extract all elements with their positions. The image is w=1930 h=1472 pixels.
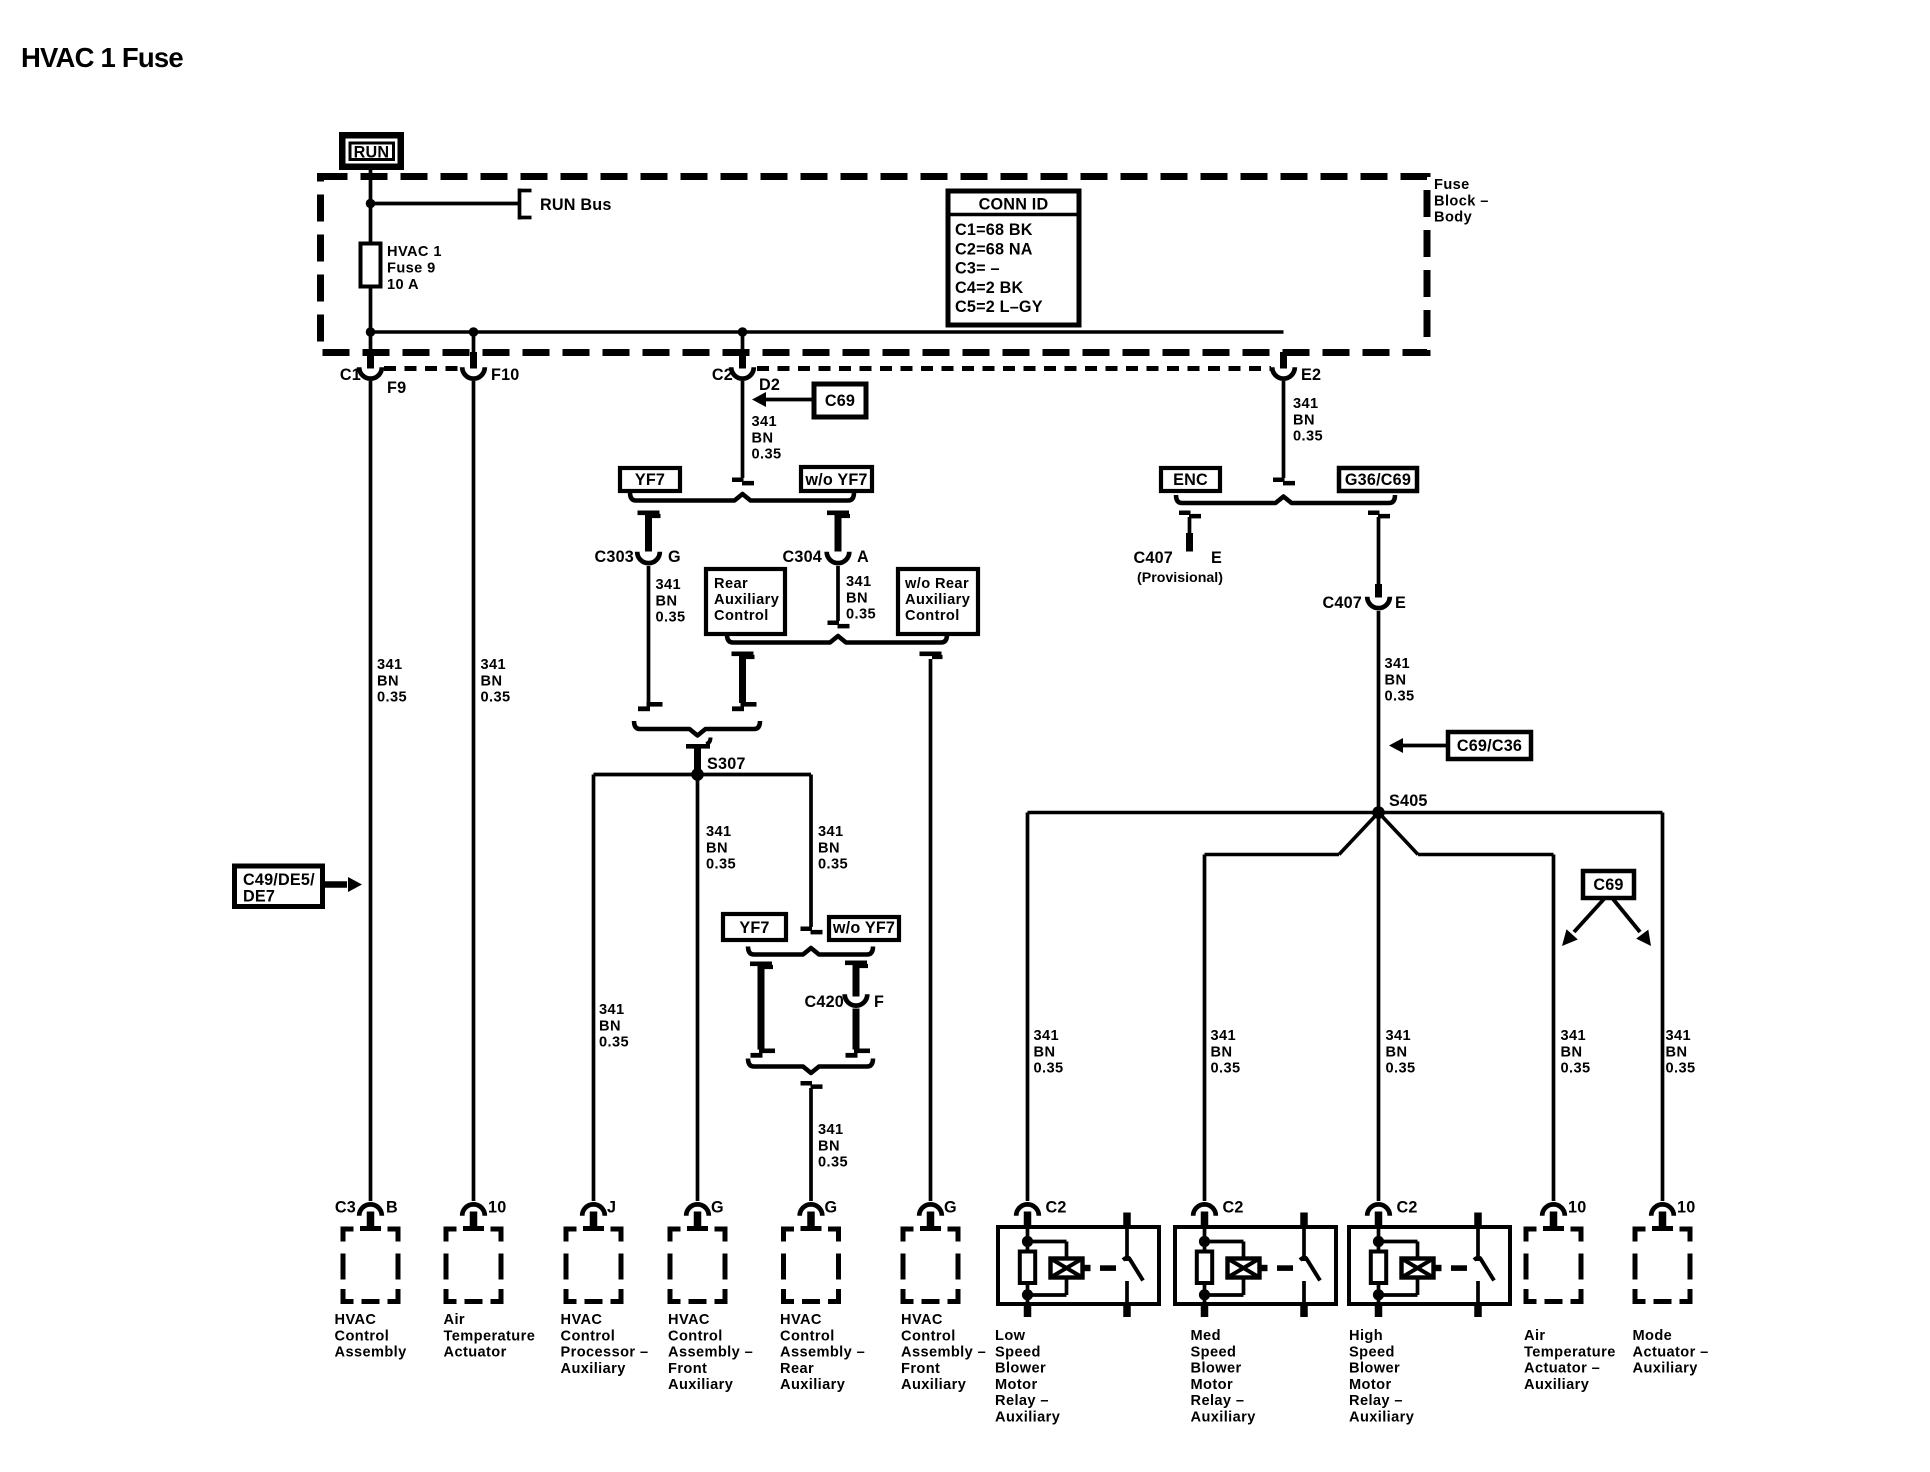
svg-text:BN: BN: [1666, 1044, 1688, 1060]
option label ENC box: [1161, 468, 1220, 491]
label pin 10 (air temp actuator): [488, 1199, 506, 1217]
fuse HVAC 1 Fuse 9 10A: [361, 244, 381, 287]
label 341 BN 0.35 (below E2): [1293, 396, 1323, 445]
svg-text:F: F: [874, 993, 884, 1011]
svg-text:341: 341: [1211, 1028, 1237, 1044]
wire 341 BN to low speed relay: [1026, 813, 1030, 1202]
label pin G at C303: [668, 548, 681, 566]
label Air Temperature Actuator: [444, 1312, 536, 1361]
connector C407 socket: [1367, 597, 1390, 608]
component box HVAC Control Processor - Auxiliary: [564, 1227, 624, 1305]
option label w/o Rear Auxiliary Control box: [898, 569, 978, 634]
svg-text:Auxiliary: Auxiliary: [714, 592, 780, 608]
connector C2 pin D2: [731, 332, 754, 379]
splice S405: [1372, 806, 1385, 819]
svg-text:BN: BN: [752, 430, 774, 446]
option split brace ENC / G36-C69: [1176, 495, 1395, 503]
component box HVAC Control Assembly - Front Auxiliary 2: [901, 1227, 961, 1305]
label 341 BN 0.35 (processor branch): [599, 1002, 629, 1051]
svg-text:HVAC 1 Fuse: HVAC 1 Fuse: [21, 42, 183, 73]
svg-text:DE7: DE7: [243, 888, 275, 906]
svg-text:(Provisional): (Provisional): [1137, 570, 1223, 586]
svg-text:0.35: 0.35: [818, 1155, 848, 1171]
connector C304 socket: [827, 552, 850, 563]
svg-text:Motor: Motor: [1349, 1377, 1392, 1393]
label C2: [712, 366, 733, 384]
svg-text:BN: BN: [1034, 1044, 1056, 1060]
svg-text:YF7: YF7: [739, 919, 769, 937]
svg-text:C407: C407: [1323, 594, 1363, 612]
svg-text:0.35: 0.35: [1561, 1061, 1591, 1077]
svg-text:S405: S405: [1389, 792, 1428, 810]
wire shelf to med relay: [1205, 853, 1340, 857]
component box HVAC Control Assembly - Front Auxiliary: [668, 1227, 728, 1305]
label C303: [595, 548, 635, 566]
svg-text:341: 341: [1385, 656, 1411, 672]
connector C420 socket: [845, 994, 868, 1005]
wire 341 BN below C303: [647, 566, 651, 703]
svg-text:10: 10: [1677, 1199, 1695, 1217]
label Med Speed Blower Motor Relay - Auxiliary: [1191, 1328, 1257, 1426]
svg-text:341: 341: [377, 657, 403, 673]
option label w/o YF7 box: [801, 467, 872, 491]
connector pin 10 into air temperature actuator: [462, 1204, 485, 1231]
label RUN Bus: [540, 196, 612, 214]
svg-text:Control: Control: [905, 608, 960, 624]
label C407: [1323, 594, 1363, 612]
label 341 BN 0.35 (C407 to S405): [1385, 656, 1415, 705]
label pin G (rear aux): [825, 1199, 838, 1217]
svg-text:0.35: 0.35: [706, 857, 736, 873]
connector C3 pin B into HVAC control assembly: [359, 1204, 382, 1231]
svg-text:Auxiliary: Auxiliary: [561, 1361, 627, 1377]
svg-text:E: E: [1395, 594, 1406, 612]
svg-text:10: 10: [1568, 1199, 1586, 1217]
callout C69 box at D2: [814, 384, 866, 417]
svg-text:Relay –: Relay –: [1191, 1393, 1245, 1409]
label E2: [1301, 366, 1321, 384]
svg-text:341: 341: [481, 657, 507, 673]
svg-text:Fuse 9: Fuse 9: [387, 260, 436, 276]
wire 341 BN C1 to HVAC control assembly: [369, 381, 373, 1201]
svg-text:HVAC: HVAC: [561, 1312, 603, 1328]
svg-text:Temperature: Temperature: [1524, 1344, 1616, 1360]
svg-text:Front: Front: [901, 1361, 940, 1377]
merge brace into S307: [634, 721, 760, 736]
label C2 (med speed relay): [1223, 1199, 1244, 1217]
svg-text:Blower: Blower: [995, 1361, 1046, 1377]
svg-text:YF7: YF7: [635, 471, 665, 489]
label F10: [491, 366, 520, 384]
wire S307 distribution: [594, 773, 812, 777]
svg-text:Control: Control: [561, 1328, 616, 1344]
wire end squiggle above ENC split: [1273, 478, 1295, 486]
svg-text:C69: C69: [1593, 876, 1623, 894]
svg-text:341: 341: [1293, 396, 1319, 412]
svg-text:Rear: Rear: [780, 1361, 814, 1377]
label 341 BN 0.35 (F10 branch): [481, 657, 511, 706]
connector C303 socket: [637, 552, 660, 563]
merge brace below C420: [748, 1059, 873, 1074]
label pin E (provisional): [1211, 549, 1222, 567]
rear-aux branch jumper pin: [739, 655, 746, 703]
svg-text:Auxiliary: Auxiliary: [780, 1377, 846, 1393]
terminal bar under merge brace: [686, 738, 711, 775]
label pin B: [386, 1199, 398, 1217]
svg-text:C2: C2: [1046, 1199, 1067, 1217]
svg-text:Assembly: Assembly: [335, 1345, 408, 1361]
svg-text:BN: BN: [1561, 1044, 1583, 1060]
label 341 BN 0.35 (below C2): [752, 414, 782, 463]
connector pin G into rear auxiliary assembly: [800, 1204, 823, 1231]
svg-text:0.35: 0.35: [599, 1035, 629, 1051]
label S405: [1389, 792, 1428, 810]
label C407 (provisional): [1134, 549, 1174, 567]
option label YF7 box: [620, 468, 680, 491]
wire S405 diagonal right: [1379, 813, 1419, 855]
connector F10: [462, 332, 485, 379]
svg-text:HVAC: HVAC: [335, 1312, 377, 1328]
wire end squiggle above rear-aux split: [828, 621, 850, 629]
option split brace YF7 lower: [748, 947, 873, 955]
svg-text:C1: C1: [340, 366, 361, 384]
svg-text:0.35: 0.35: [752, 447, 782, 463]
svg-text:Speed: Speed: [995, 1344, 1041, 1360]
svg-text:Relay –: Relay –: [995, 1393, 1049, 1409]
connector C1 pin F9: [359, 332, 382, 379]
svg-text:Auxiliary: Auxiliary: [1524, 1377, 1590, 1393]
pin below C420: [853, 1009, 860, 1050]
svg-text:BN: BN: [599, 1018, 621, 1034]
label C1: [340, 366, 361, 384]
svg-text:HVAC: HVAC: [780, 1312, 822, 1328]
svg-text:S307: S307: [707, 755, 746, 773]
w/o YF7 branch terminal bar: [827, 511, 850, 519]
label pin 10 (air temp aux): [1568, 1199, 1586, 1217]
relay Med Speed Blower Motor Relay - Auxiliary: [1175, 1212, 1336, 1318]
fuse block - body dashed outline: [321, 177, 1428, 353]
connector E2: [1272, 352, 1295, 379]
YF7 lower branch terminal bar: [750, 962, 773, 970]
svg-text:Motor: Motor: [995, 1377, 1038, 1393]
svg-text:Assembly –: Assembly –: [901, 1345, 986, 1361]
svg-text:Speed: Speed: [1191, 1344, 1237, 1360]
svg-text:10 A: 10 A: [387, 277, 419, 293]
G36/C69 branch wire: [1377, 517, 1381, 585]
svg-text:Fuse: Fuse: [1434, 177, 1470, 193]
ENC branch squiggle: [1179, 511, 1201, 519]
wire RUN Bus tap with bracket: [371, 189, 532, 220]
svg-text:BN: BN: [1386, 1044, 1408, 1060]
label (Provisional): [1137, 570, 1223, 586]
wire 341 BN to mode actuator auxiliary: [1661, 813, 1665, 1202]
svg-text:BN: BN: [481, 673, 503, 689]
label F9: [387, 379, 406, 397]
wire 341 BN S307 to HVAC control processor: [592, 775, 596, 1202]
wire 341 BN S307 to front auxiliary assembly: [696, 775, 700, 1202]
callout C49/DE5/DE7 box: [235, 866, 323, 907]
svg-text:341: 341: [1561, 1028, 1587, 1044]
connector pin G into front auxiliary assembly 2: [919, 1204, 942, 1231]
svg-text:C3= –: C3= –: [955, 260, 1000, 278]
label HVAC Control Assembly: [335, 1312, 408, 1361]
svg-text:Auxiliary: Auxiliary: [1191, 1410, 1257, 1426]
label C2 (high speed relay): [1397, 1199, 1418, 1217]
svg-text:341: 341: [1666, 1028, 1692, 1044]
wire S405 distribution bar: [1028, 811, 1663, 815]
arrow C69 to mode wire: [1613, 899, 1651, 946]
label pin A at C304: [857, 548, 869, 566]
svg-text:G: G: [944, 1199, 957, 1217]
svg-text:G: G: [711, 1199, 724, 1217]
svg-text:0.35: 0.35: [1034, 1061, 1064, 1077]
svg-text:E: E: [1211, 549, 1222, 567]
svg-text:BN: BN: [706, 840, 728, 856]
svg-text:Med: Med: [1191, 1328, 1221, 1344]
svg-text:w/o YF7: w/o YF7: [804, 471, 867, 489]
svg-text:C69: C69: [825, 392, 855, 410]
svg-text:0.35: 0.35: [1666, 1061, 1696, 1077]
svg-text:Mode: Mode: [1633, 1328, 1673, 1344]
svg-text:C2=68 NA: C2=68 NA: [955, 240, 1033, 258]
label HVAC Control Processor - Auxiliary: [561, 1312, 649, 1377]
dotted connector face C2 to E2: [757, 366, 1271, 371]
component box HVAC Control Assembly - Rear Auxiliary: [781, 1227, 841, 1305]
svg-text:G: G: [668, 548, 681, 566]
w/o YF7 lower bottom terminal bar: [846, 1049, 871, 1058]
callout C69/C36 box: [1448, 732, 1531, 759]
svg-text:J: J: [607, 1199, 616, 1217]
junction bus at F10: [469, 327, 479, 337]
label HVAC Control Assembly - Front Auxiliary: [668, 1312, 753, 1393]
label 341 BN 0.35 (C304 branch): [846, 574, 876, 623]
w/o rear-aux branch terminal bar: [920, 652, 943, 660]
svg-text:0.35: 0.35: [1211, 1061, 1241, 1077]
w/o YF7 lower branch terminal bar: [845, 961, 868, 969]
label pin G (front aux 2): [944, 1199, 957, 1217]
label 341 BN 0.35 (mode actuator): [1666, 1028, 1696, 1077]
squiggle below merge brace: [801, 1081, 823, 1089]
svg-text:G: G: [825, 1199, 838, 1217]
svg-text:C49/DE5/: C49/DE5/: [243, 871, 315, 889]
svg-text:BN: BN: [1293, 412, 1315, 428]
label C3: [335, 1199, 356, 1217]
svg-text:Block –: Block –: [1434, 193, 1489, 209]
label 341 BN 0.35 (high speed): [1386, 1028, 1416, 1077]
svg-text:BN: BN: [1211, 1044, 1233, 1060]
svg-text:Control: Control: [335, 1328, 390, 1344]
svg-text:HVAC 1: HVAC 1: [387, 244, 442, 260]
label S307: [707, 755, 746, 773]
option label Rear Auxiliary Control box: [706, 569, 785, 634]
svg-text:BN: BN: [846, 590, 868, 606]
svg-text:F9: F9: [387, 379, 406, 397]
label Mode Actuator - Auxiliary: [1633, 1328, 1709, 1377]
relay Low Speed Blower Motor Relay - Auxiliary: [998, 1212, 1159, 1318]
label pin E at C407: [1395, 594, 1406, 612]
option split brace YF7 / w-o YF7: [630, 493, 854, 501]
svg-text:Processor –: Processor –: [561, 1345, 649, 1361]
svg-text:BN: BN: [377, 673, 399, 689]
svg-text:Control: Control: [714, 608, 769, 624]
wire 341 BN below E2: [1282, 381, 1286, 478]
svg-text:w/o Rear: w/o Rear: [904, 576, 969, 592]
svg-text:Speed: Speed: [1349, 1344, 1395, 1360]
wire fused output bus: [371, 330, 1284, 334]
label High Speed Blower Motor Relay - Auxiliary: [1349, 1328, 1415, 1426]
svg-text:D2: D2: [759, 376, 780, 394]
label 341 BN 0.35 (to rear aux assembly): [818, 1122, 848, 1171]
option split brace rear auxiliary control: [727, 635, 947, 643]
pin into C407: [1375, 584, 1382, 598]
svg-text:C2: C2: [1397, 1199, 1418, 1217]
svg-text:Blower: Blower: [1191, 1361, 1242, 1377]
svg-text:Auxiliary: Auxiliary: [1349, 1410, 1415, 1426]
label 341 BN 0.35 (C303 branch): [656, 577, 686, 626]
ENC branch wire: [1188, 517, 1192, 535]
label HVAC Control Assembly - Front Auxiliary 2: [901, 1312, 986, 1393]
node RUN (ignition voltage): [339, 132, 404, 170]
svg-text:Actuator –: Actuator –: [1633, 1344, 1709, 1360]
svg-text:341: 341: [599, 1002, 625, 1018]
label 341 BN 0.35 (front aux branch): [706, 824, 736, 873]
label C304: [783, 548, 823, 566]
svg-text:341: 341: [1386, 1028, 1412, 1044]
svg-text:E2: E2: [1301, 366, 1321, 384]
svg-text:Assembly –: Assembly –: [780, 1345, 865, 1361]
w/o YF7 branch pin into C420: [853, 964, 860, 997]
junction RUN Bus tap: [366, 199, 376, 209]
svg-text:BN: BN: [818, 840, 840, 856]
svg-text:C3: C3: [335, 1199, 356, 1217]
svg-text:Control: Control: [901, 1328, 956, 1344]
svg-text:0.35: 0.35: [656, 610, 686, 626]
wire w/o rear-aux to front auxiliary assembly: [929, 659, 933, 1201]
connector C2 into low speed relay: [1016, 1204, 1039, 1215]
svg-text:341: 341: [1034, 1028, 1060, 1044]
wire 341 BN below C304: [836, 566, 840, 621]
svg-text:BN: BN: [656, 593, 678, 609]
svg-text:B: B: [386, 1199, 398, 1217]
w/o YF7 branch pin into C304: [835, 514, 842, 552]
svg-text:10: 10: [488, 1199, 506, 1217]
label pin F at C420: [874, 993, 884, 1011]
YF7 branch pin into C303: [645, 514, 652, 552]
connector C2 into med speed relay: [1193, 1204, 1216, 1215]
svg-text:C2: C2: [1223, 1199, 1244, 1217]
component box Air Temperature Actuator - Auxiliary: [1524, 1227, 1584, 1305]
label 341 BN 0.35 (air temp aux): [1561, 1028, 1591, 1077]
svg-text:RUN Bus: RUN Bus: [540, 196, 612, 214]
svg-text:Front: Front: [668, 1361, 707, 1377]
svg-text:G36/C69: G36/C69: [1345, 471, 1411, 489]
wire end squiggle above second YF7 split: [801, 927, 823, 935]
label C2 (low speed relay): [1046, 1199, 1067, 1217]
callout C69 box (lower): [1583, 871, 1634, 898]
junction bus at C2: [738, 327, 748, 337]
svg-text:0.35: 0.35: [846, 607, 876, 623]
arrow C69/C36 to wire: [1389, 738, 1448, 753]
label D2: [759, 376, 780, 394]
svg-text:Motor: Motor: [1191, 1377, 1234, 1393]
CONN ID table: [948, 191, 1079, 325]
svg-text:Auxiliary: Auxiliary: [905, 592, 971, 608]
svg-text:0.35: 0.35: [377, 690, 407, 706]
wire RUN to fuse: [369, 170, 373, 244]
svg-text:RUN: RUN: [354, 144, 390, 162]
connector pin J into HVAC control processor: [582, 1204, 605, 1231]
YF7 lower branch jumper pin: [758, 965, 765, 1050]
wire 341 BN below C2: [741, 381, 745, 478]
dotted connector face C1 to F10: [384, 366, 461, 371]
svg-text:HVAC: HVAC: [901, 1312, 943, 1328]
svg-text:Auxiliary: Auxiliary: [668, 1377, 734, 1393]
svg-text:C303: C303: [595, 548, 635, 566]
wire 341 BN to high speed relay: [1377, 813, 1381, 1202]
svg-text:Air: Air: [1524, 1328, 1545, 1344]
svg-text:Auxiliary: Auxiliary: [901, 1377, 967, 1393]
connector pin 10 into mode actuator auxiliary: [1651, 1204, 1674, 1231]
rear-aux branch terminal bar: [732, 652, 755, 660]
svg-text:Assembly –: Assembly –: [668, 1345, 753, 1361]
ENC branch provisional pin C407 E: [1186, 533, 1193, 552]
svg-text:Actuator –: Actuator –: [1524, 1361, 1600, 1377]
wire end squiggle above YF7 split: [732, 478, 754, 486]
component box HVAC Control Assembly: [341, 1227, 401, 1305]
arrow C69 to air temp wire: [1562, 899, 1604, 946]
svg-text:w/o YF7: w/o YF7: [832, 919, 895, 937]
svg-text:C1=68 BK: C1=68 BK: [955, 221, 1033, 239]
wire 341 BN S307 to YF7 split: [809, 775, 813, 928]
svg-text:0.35: 0.35: [1386, 1061, 1416, 1077]
YF7 lower branch bottom terminal bar: [751, 1049, 776, 1058]
svg-text:C420: C420: [805, 993, 845, 1011]
svg-text:0.35: 0.35: [1385, 689, 1415, 705]
svg-text:Control: Control: [780, 1328, 835, 1344]
svg-text:0.35: 0.35: [481, 690, 511, 706]
wire 341 BN C420 to rear auxiliary assembly: [809, 1088, 813, 1201]
YF7 branch terminal bar: [638, 511, 661, 519]
wire 341 BN to med speed relay: [1203, 855, 1207, 1202]
option label YF7 box (lower): [723, 914, 786, 940]
svg-text:C304: C304: [783, 548, 823, 566]
junction bus at fuse: [366, 327, 376, 337]
svg-text:Relay –: Relay –: [1349, 1393, 1403, 1409]
connector pin 10 into air temp actuator auxiliary: [1542, 1204, 1565, 1231]
svg-text:Actuator: Actuator: [444, 1345, 507, 1361]
wire 341 BN C407 to S405: [1377, 611, 1381, 813]
svg-text:341: 341: [846, 574, 872, 590]
wire shelf to air temp actuator aux: [1418, 853, 1554, 857]
svg-text:Blower: Blower: [1349, 1361, 1400, 1377]
svg-text:F10: F10: [491, 366, 520, 384]
svg-text:Air: Air: [444, 1312, 465, 1328]
svg-text:341: 341: [818, 1122, 844, 1138]
label 341 BN 0.35 (med speed): [1211, 1028, 1241, 1077]
svg-text:C2: C2: [712, 366, 733, 384]
option label G36/C69 box: [1339, 468, 1417, 491]
label Fuse Block - Body: [1434, 177, 1489, 226]
svg-text:High: High: [1349, 1328, 1383, 1344]
label Low Speed Blower Motor Relay - Auxiliary: [995, 1328, 1061, 1426]
svg-text:Body: Body: [1434, 210, 1473, 226]
svg-text:C69/C36: C69/C36: [1457, 737, 1522, 755]
svg-text:C407: C407: [1134, 549, 1174, 567]
arrow C69 to wire: [752, 392, 814, 407]
svg-text:HVAC: HVAC: [668, 1312, 710, 1328]
label 341 BN 0.35 (C1 branch): [377, 657, 407, 706]
svg-text:A: A: [857, 548, 869, 566]
